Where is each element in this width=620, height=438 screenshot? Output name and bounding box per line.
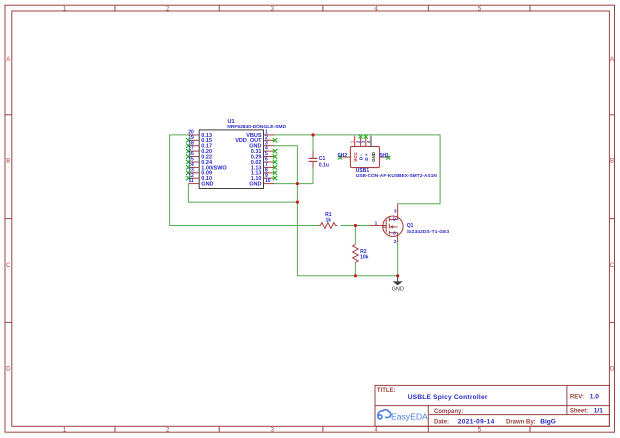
svg-text:1/1: 1/1 [594,408,603,415]
svg-text:Drawn By:: Drawn By: [506,420,536,426]
svg-text:S: S [393,230,396,235]
svg-text:Sheet:: Sheet: [570,409,588,415]
svg-text:2: 2 [394,239,397,245]
svg-text:GND: GND [371,151,376,162]
svg-text:G: G [383,224,387,229]
svg-text:D: D [393,217,396,222]
svg-text:EasyEDA: EasyEDA [391,412,428,422]
svg-text:C: C [6,263,11,269]
svg-text:SI2342DS-T1-GE3: SI2342DS-T1-GE3 [407,229,450,235]
svg-text:C1: C1 [319,156,326,162]
svg-text:D +: D + [364,153,369,161]
svg-text:D: D [610,366,615,372]
svg-text:0.1u: 0.1u [319,163,329,169]
svg-text:1k: 1k [326,218,332,224]
svg-text:USBLE Spicy Controller: USBLE Spicy Controller [408,394,488,401]
svg-text:REV:: REV: [570,394,584,400]
svg-text:GND: GND [392,286,404,292]
svg-text:10k: 10k [360,254,369,260]
svg-text:SH2: SH2 [337,153,347,159]
svg-text:Q1: Q1 [407,223,414,229]
svg-text:USB-CON-AF-KUSBEX-SMT2-AS1N: USB-CON-AF-KUSBEX-SMT2-AS1N [356,173,438,178]
svg-text:VCC: VCC [353,152,358,162]
svg-text:Company:: Company: [434,409,463,415]
svg-text:U1: U1 [228,119,235,125]
svg-text:Date:: Date: [434,420,449,426]
svg-text:11: 11 [189,178,195,184]
svg-text:GND: GND [249,182,261,188]
svg-text:3: 3 [394,209,397,215]
svg-text:1: 1 [375,221,378,227]
svg-text:B: B [610,159,614,165]
svg-text:B: B [6,159,10,165]
svg-text:D -: D - [358,154,363,161]
svg-text:BigG: BigG [540,419,556,426]
svg-text:1.0: 1.0 [590,393,599,400]
svg-text:D: D [6,366,11,372]
svg-text:A: A [610,57,614,63]
svg-text:10: 10 [265,178,271,184]
svg-text:GND: GND [201,182,213,188]
svg-text:TITLE:: TITLE: [377,388,396,394]
svg-text:2021-09-14: 2021-09-14 [458,419,495,426]
svg-text:C: C [610,263,615,269]
svg-text:A: A [6,57,10,63]
svg-text:SH1: SH1 [379,153,389,159]
svg-text:NRF52840-DONGLE-SMD: NRF52840-DONGLE-SMD [227,124,286,130]
